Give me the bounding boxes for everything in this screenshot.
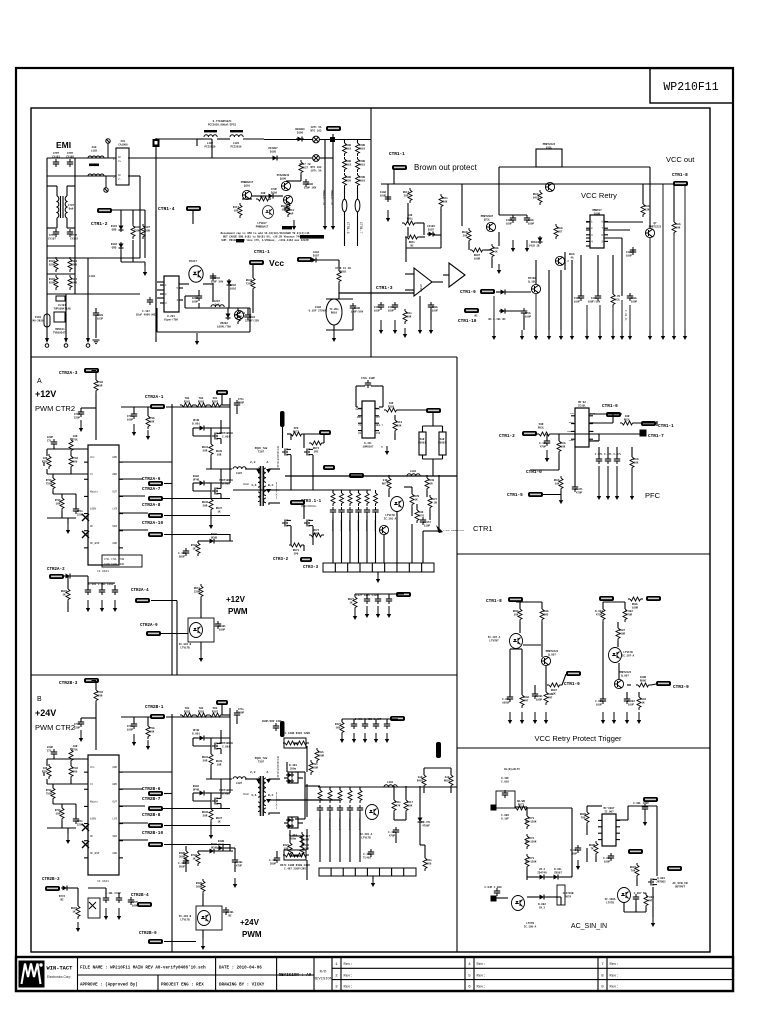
- title block PROJECT ENG: [161, 984, 204, 988]
- svg-text:1K: 1K: [217, 510, 221, 513]
- CTR2B fet2 wires: [211, 738, 230, 829]
- R203 CTR2B label: [198, 707, 205, 713]
- capacitor C42a (B): [351, 721, 357, 729]
- R073b CTR2A label: [293, 549, 300, 555]
- svg-text:Q.10L: Q.10L: [528, 280, 536, 283]
- resistor R306 CTR2A: [209, 497, 213, 512]
- arrow ac r1: [643, 812, 647, 826]
- svg-text:GND: GND: [112, 852, 117, 855]
- svg-text:R00G: R00G: [640, 679, 647, 682]
- svg-text:10B: 10B: [217, 763, 222, 766]
- C70L330 label: [361, 377, 375, 380]
- svg-text:IC10L: IC10L: [578, 404, 586, 407]
- T300 CTR2B label: [255, 757, 268, 763]
- snubber wire B2: [338, 787, 341, 862]
- capacitor C40L top (B): [273, 723, 279, 731]
- wire label CTR2A-10: [148, 532, 163, 537]
- svg-text:200P: 200P: [270, 862, 277, 865]
- arrow pfc r1: [597, 466, 601, 500]
- D107b label: [427, 225, 435, 231]
- svg-text:CTR2A-7: CTR2A-7: [142, 487, 161, 492]
- optocoupler IC401A: [366, 805, 379, 820]
- label B: [37, 696, 42, 703]
- D10A label: [271, 188, 278, 194]
- title block cell lines: [78, 957, 333, 991]
- wire label ctr3-9: [656, 681, 671, 686]
- capacitor CY106: [67, 159, 73, 167]
- svg-text:R073: R073: [518, 803, 525, 806]
- wire label CTR2B-6: [148, 791, 163, 796]
- snubber bottom box A: [323, 563, 434, 572]
- capacitor C71 CTR2B left: [51, 749, 57, 757]
- jumper loop 1: [342, 199, 347, 211]
- svg-text:ISN: ISN: [376, 432, 381, 435]
- svg-text:VCC Retry: VCC Retry: [581, 191, 617, 200]
- R702 CTR2A label: [97, 381, 104, 387]
- R300 CTR2B label: [216, 760, 223, 766]
- optocoupler U202: [189, 266, 203, 283]
- D77A label: [59, 895, 66, 901]
- D303 CTR2A label: [211, 533, 218, 539]
- arrow rt r2: [625, 712, 629, 724]
- svg-text:A: A: [37, 378, 42, 385]
- resistor R03L right pfc: [630, 455, 634, 470]
- svg-text:R303: R303: [184, 710, 191, 713]
- inductor L102 core bar: [89, 164, 99, 167]
- svg-text:C=: C=: [90, 473, 94, 476]
- svg-text:R70L: R70L: [42, 460, 49, 463]
- EMI bottom terminals: [47, 294, 96, 338]
- svg-text:100R: 100R: [632, 606, 639, 609]
- svg-text:+24V: +24V: [240, 918, 260, 927]
- rectifier wires: [121, 210, 145, 266]
- CA caps label: [89, 583, 114, 586]
- svg-text:D10A: D10A: [271, 191, 278, 194]
- Rs1 label: [418, 438, 426, 444]
- C717 CTR2B label: [74, 723, 81, 729]
- svg-text:CTR1-1: CTR1-1: [254, 250, 270, 255]
- svg-text:C71_: C71_: [47, 439, 54, 442]
- R07Aac label: [563, 892, 574, 898]
- CB caps label: [105, 892, 121, 895]
- xfmr core bars: [204, 130, 243, 132]
- R303 CTR2A label: [184, 397, 191, 403]
- CTR2B d303 wires: [198, 844, 233, 853]
- pfc wires mid: [543, 447, 575, 500]
- CTR2A ic pin label r2: [112, 490, 117, 493]
- Q73L label: [481, 215, 494, 221]
- inductor L102 winding A: [88, 156, 104, 158]
- R03L12K label: [644, 205, 651, 211]
- CY102 label: [70, 234, 78, 240]
- svg-text:OUTPUT: OUTPUT: [675, 885, 685, 888]
- label VCC Retry: [581, 191, 617, 200]
- wire label HV+: [326, 126, 341, 131]
- svg-text:UF4B: UF4B: [211, 846, 218, 849]
- svg-text:NPC1010N(M)2L: NPC1010N(M)2L: [275, 482, 278, 500]
- terminal arrow R: [86, 338, 90, 347]
- svg-text:220P 1KV: 220P 1KV: [304, 186, 317, 189]
- svg-text:100R: 100R: [474, 257, 481, 260]
- svg-text:OUT: OUT: [112, 490, 117, 493]
- svg-text:R/GL: R/GL: [473, 310, 480, 314]
- C00L2ac label: [603, 857, 611, 863]
- Q302 CTR2A label: [219, 479, 233, 485]
- svg-text:TVR10G471: TVR10G471: [53, 331, 67, 334]
- label CTR1-2: [91, 221, 108, 227]
- chain wires top: [345, 140, 358, 144]
- D202 label: [230, 284, 237, 290]
- terminal mark 1: [106, 139, 110, 158]
- capacitor C204b: [245, 312, 251, 320]
- arrow cc1: [353, 610, 357, 620]
- capacitor C71L CTR2A left: [73, 506, 79, 514]
- label CTR1-4: [158, 206, 175, 212]
- wire label caps (B): [390, 716, 405, 721]
- svg-text:100R: 100R: [619, 632, 626, 635]
- CTR2A sync wires: [283, 427, 325, 551]
- resistor R70L CTR2A: [146, 414, 150, 429]
- label CTR2B-2: [42, 878, 60, 882]
- svg-text:R203: R203: [198, 400, 205, 403]
- svg-text:CTR2B-4: CTR2B-4: [131, 894, 149, 898]
- diode D106: [296, 137, 304, 142]
- svg-text:R03L: R03L: [614, 298, 621, 301]
- acsin pin squares: [491, 805, 496, 901]
- snubber wire A1: [339, 490, 342, 563]
- label CTR2B-1: [145, 705, 164, 710]
- svg-text:COM: COM: [570, 412, 575, 415]
- CTR2A ic name: [97, 570, 109, 573]
- label VCC Retry Protect Trigger: [534, 734, 622, 743]
- capacitor C70L CTR2B: [131, 721, 137, 729]
- svg-text:Q10B: Q10B: [594, 212, 601, 215]
- svg-text:FILE NAME : WP210F11 MAIN REV: FILE NAME : WP210F11 MAIN REV A0-verify0…: [80, 966, 206, 971]
- node A1: [438, 530, 441, 533]
- mosfet Q302 CTR2B: [212, 798, 221, 805]
- wire label ctr1-6 pfc: [606, 412, 621, 417]
- svg-text:300R: 300R: [179, 855, 186, 858]
- svg-text:GND: GND: [112, 456, 117, 459]
- D105 label: [268, 147, 278, 153]
- arrow cc4: [387, 606, 391, 618]
- IC401B label: [179, 915, 192, 921]
- svg-text:MMBT2222: MMBT2222: [649, 225, 662, 228]
- R00Lrtr label: [632, 603, 639, 609]
- svg-text:T307: T307: [258, 760, 265, 763]
- transformer T300 CTR2A primary: [258, 468, 260, 502]
- arrow vcc branch: [332, 330, 336, 342]
- snubber resistor A5: [374, 491, 378, 506]
- optoB wires (B): [164, 894, 203, 942]
- svg-text:70K: 70K: [631, 869, 636, 872]
- R300 CTR2A label: [216, 450, 223, 456]
- resistor R750K CTR2A: [51, 476, 55, 491]
- resistor R017b: [408, 188, 412, 203]
- svg-text:CTR1-10: CTR1-10: [458, 319, 477, 324]
- IC107B label: [622, 651, 635, 657]
- D303 CTR2B label: [211, 843, 218, 849]
- R006ac label: [580, 813, 587, 819]
- title block DRAWING BY: [219, 984, 265, 988]
- R702 CTR2B label: [97, 691, 104, 697]
- CTR2A ic pin label r5: [112, 542, 117, 545]
- rt left wires: [510, 602, 566, 697]
- svg-text:MC'02: MC'02: [578, 400, 586, 404]
- resistor R073 ac h: [514, 806, 529, 810]
- arrow rt l0: [508, 712, 512, 724]
- transistor Q00x rt r: [614, 679, 623, 688]
- svg-text:+12V: +12V: [35, 389, 56, 399]
- b mid wires: [186, 846, 235, 872]
- resistor R073 ac 1: [525, 814, 529, 829]
- svg-text:C.10 AL: C.10 AL: [624, 310, 627, 321]
- wire label vcc out: [673, 181, 688, 186]
- IC10L label: [578, 400, 586, 407]
- svg-text:55uF 400V HXD: 55uF 400V HXD: [136, 313, 157, 316]
- transistor Q10L: [531, 284, 540, 293]
- svg-text:4M7: 4M7: [524, 699, 529, 702]
- CTR2A sec pill vertical: [280, 411, 285, 427]
- sense resistor Rs2 (A): [439, 432, 446, 455]
- svg-text:4A: 4A: [570, 256, 574, 259]
- svg-text:47K: 47K: [396, 804, 401, 807]
- C004ac label: [570, 849, 578, 855]
- svg-text:OUT: OUT: [112, 800, 117, 803]
- CTR2A d301 loop: [193, 428, 211, 436]
- retry wires 2: [581, 167, 674, 296]
- svg-text:100P 100P 100R: 100P 100P 100R: [104, 563, 125, 566]
- resistor R303 CTR2B: [180, 713, 195, 717]
- svg-text:DATE : 2010-04-06: DATE : 2010-04-06: [219, 967, 262, 971]
- label CTR2A-7: [142, 487, 161, 492]
- ground arrow tr11: [648, 330, 652, 340]
- svg-text:107t 5A: 107t 5A: [311, 169, 322, 172]
- pfc bus: [552, 433, 640, 435]
- opto B box (B): [196, 906, 222, 930]
- R702b CTR2B llabel: [72, 767, 79, 773]
- CTR3-2 label (A): [273, 558, 289, 562]
- svg-text:CTR2B-8: CTR2B-8: [142, 813, 161, 818]
- svg-text:NTC 103: NTC 103: [311, 129, 322, 132]
- sense wires B: [424, 768, 451, 793]
- svg-text:REVISION : A0: REVISION : A0: [279, 974, 312, 978]
- arrow CTR2B fet2: [209, 829, 213, 839]
- capacitor C73L: [521, 308, 527, 316]
- acsin mid wires: [527, 808, 572, 905]
- capacitor C002 rt r: [624, 696, 630, 704]
- svg-text:10R: 10R: [56, 812, 61, 815]
- snubber wire B1: [328, 787, 331, 862]
- label CTR1-7 (pfc): [648, 434, 664, 439]
- svg-text:7K: 7K: [590, 847, 594, 850]
- HV bus top wire: [156, 138, 212, 140]
- wire label Vcc pill: [249, 260, 264, 265]
- capacitor CY107: [53, 229, 59, 237]
- svg-text:100P: 100P: [219, 628, 226, 631]
- svg-text:CTR1-6: CTR1-6: [346, 222, 350, 234]
- svg-text:LTV17B: LTV17B: [180, 918, 190, 921]
- svg-text:220P: 220P: [74, 726, 81, 729]
- resistor R032: [251, 276, 255, 291]
- inductor L303 (A): [407, 474, 420, 476]
- C71L CTR2B llabel2: [77, 820, 84, 826]
- hv wires: [264, 140, 371, 159]
- svg-text:CTR2A-2: CTR2A-2: [47, 568, 65, 572]
- svg-text:NPC1010N(M)2L40: NPC1010N(M)2L40: [276, 756, 279, 778]
- capacitor C403 (B): [368, 849, 374, 857]
- bottom wires B: [69, 888, 119, 906]
- label CTR2B-9: [139, 932, 157, 936]
- mosfet Q301 CTR2B: [212, 743, 221, 750]
- svg-text:PQ10/06C0LL: PQ10/06C0LL: [301, 505, 317, 508]
- label CTR2B-3: [59, 681, 78, 686]
- arrow primary gnd: [195, 333, 199, 345]
- svg-text:50R: 50R: [98, 384, 103, 387]
- arrow pfc r4: [630, 470, 634, 500]
- aux bus: [155, 210, 157, 342]
- pwm wires: [157, 276, 250, 332]
- resistor R70L CTR2B left: [69, 748, 73, 763]
- svg-text:PMBBGA1T: PMBBGA1T: [256, 225, 269, 228]
- connector FUL CA1006 box: [113, 148, 129, 185]
- svg-text:CTR2A-10: CTR2A-10: [142, 521, 163, 526]
- wire label ctr1-10: [464, 308, 479, 313]
- dual diode D404 (B): [284, 817, 303, 829]
- capacitor C00L2 rt: [532, 691, 538, 699]
- resistor R03L 84LB: [538, 190, 542, 205]
- L307 CTR2A label: [236, 472, 243, 475]
- snubber wire A2: [348, 490, 351, 563]
- svg-text:1M2: 1M2: [314, 450, 319, 453]
- capacitor C00L2 ac: [608, 853, 614, 861]
- diode D105: [271, 156, 279, 161]
- svg-text:200m: 200m: [290, 767, 297, 770]
- CTR2B xfmr wires: [255, 779, 280, 813]
- snubber resistor B1: [328, 788, 332, 803]
- svg-text:D105: D105: [270, 150, 277, 153]
- label CTR2A-2: [47, 568, 65, 572]
- svg-text:NEG.T: NEG.T: [376, 424, 384, 427]
- L307 CTR2B label: [236, 782, 243, 785]
- svg-text:COMP: COMP: [569, 439, 575, 442]
- AC line bus N: [47, 175, 140, 177]
- Q10L label: [528, 277, 536, 283]
- svg-text:CY106: CY106: [66, 155, 74, 158]
- svg-text:5: 5: [381, 446, 383, 449]
- svg-text:2,3: 2,3: [250, 461, 256, 464]
- svg-text:R020: R020: [345, 179, 352, 182]
- diode D CTR2B-2: [61, 886, 69, 891]
- svg-text:T20K: T20K: [246, 282, 253, 285]
- R017b label: [403, 191, 410, 197]
- C42L label: [269, 859, 277, 865]
- CTR2B-1 hang wires: [134, 717, 148, 726]
- IC00x ac label: [604, 806, 615, 813]
- acsin right wires: [587, 806, 657, 886]
- brown verticals: [420, 296, 431, 320]
- svg-text:NC: NC: [90, 835, 94, 838]
- arrow CTR2B left: [66, 834, 70, 844]
- FU101 label: [33, 316, 44, 322]
- R019 label: [345, 144, 352, 150]
- svg-text:Rev:: Rev:: [477, 986, 486, 990]
- svg-text:103P: 103P: [97, 317, 104, 320]
- resistor R306 CTR2B: [209, 807, 213, 822]
- C37Lpfc label: [575, 488, 583, 494]
- R018 label: [345, 160, 352, 166]
- svg-text:8mH: 8mH: [69, 207, 74, 210]
- CTR2A ic pin label l5: [90, 542, 100, 545]
- capacitor C10L3: [428, 302, 434, 310]
- r027 wire: [286, 175, 301, 181]
- label +12V PWM: [226, 595, 248, 616]
- svg-text:1K: 1K: [349, 601, 353, 604]
- svg-text:Rev:: Rev:: [344, 986, 353, 990]
- arrow CA2: [100, 600, 104, 612]
- label VCC out: [666, 155, 695, 164]
- snubber capacitor B1: [327, 805, 333, 813]
- CL101 label: [53, 304, 71, 310]
- capacitor CA1: [85, 587, 91, 595]
- C202 label: [211, 277, 224, 283]
- svg-text:CTR1-2: CTR1-2: [91, 221, 108, 227]
- svg-text:LM358: LM358: [419, 284, 422, 292]
- capacitor C107: [147, 297, 153, 305]
- label CTR3-9 (rt): [673, 685, 689, 690]
- label CTR2B-10: [142, 831, 163, 836]
- svg-text:UF4B: UF4B: [218, 843, 225, 846]
- svg-text:220R: 220R: [194, 590, 201, 593]
- arrow CTR2A a2: [146, 430, 150, 440]
- svg-text:AC: AC: [118, 174, 122, 177]
- R027 label: [300, 163, 311, 169]
- snubber resistor A2: [348, 491, 352, 506]
- svg-text:R073: R073: [293, 430, 300, 433]
- CY107 label: [48, 234, 56, 240]
- U301 label: [363, 442, 374, 448]
- svg-text:4,6: 4,6: [251, 484, 257, 487]
- svg-text:PMBBGA1T-04: PMBBGA1T-04: [330, 190, 333, 206]
- vcc branch wires 2: [338, 284, 340, 299]
- resistor R61K: [402, 221, 417, 225]
- C10A label: [380, 191, 387, 197]
- resistor R41L (B): [392, 798, 396, 813]
- capacitor C717 CTR2A: [78, 409, 84, 417]
- CTR2B gate wires: [222, 705, 230, 715]
- CTR2A rotated note 2: [275, 482, 278, 500]
- R203 CTR2A label: [198, 397, 205, 403]
- snubber capacitor B3: [347, 805, 353, 813]
- ground arrow tr1: [520, 330, 524, 340]
- svg-text:CTR2A-4: CTR2A-4: [131, 589, 149, 593]
- svg-text:HRD: HRD: [112, 473, 117, 476]
- diode D301 CTR2A: [198, 426, 206, 431]
- vcc branch wires 3: [326, 299, 353, 330]
- C71 CTR2B llabel: [47, 746, 54, 752]
- capacitor C71 CTR2A left: [51, 439, 57, 447]
- transistor Q204: [234, 310, 243, 319]
- diode D ctr9: [499, 290, 507, 295]
- U201 label: [164, 315, 178, 321]
- R03C label: [462, 231, 469, 237]
- svg-text:TUP10N471AB: TUP10N471AB: [53, 307, 71, 310]
- ground arrow tr12: [661, 330, 665, 340]
- svg-text:50R: 50R: [203, 504, 208, 507]
- svg-text:10B: 10B: [217, 453, 222, 456]
- label CTR2A-4: [131, 589, 149, 593]
- CTR2A fet1 wires: [211, 405, 230, 469]
